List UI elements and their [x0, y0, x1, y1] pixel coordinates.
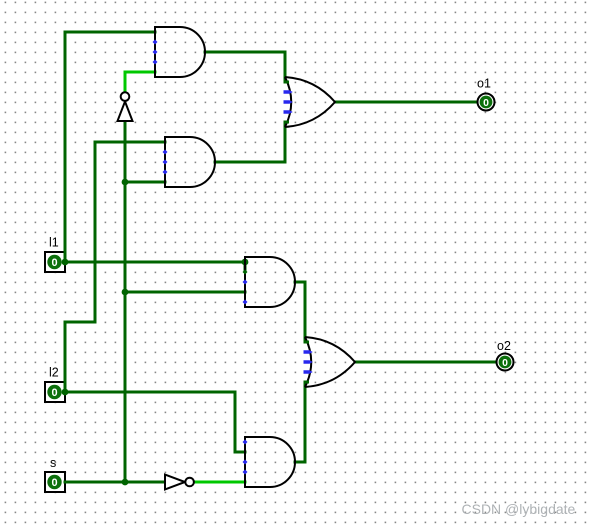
wire l1 to AND1 top input	[65, 32, 155, 262]
NOT gate N1 (pointing up)	[118, 92, 133, 121]
wire OR2 output to pin o2	[355, 361, 496, 364]
input pin s	[45, 456, 65, 492]
svg-text:0: 0	[502, 357, 508, 369]
AND gate A3	[243, 257, 296, 307]
svg-text:0: 0	[483, 97, 489, 109]
wire s to AND2 input 5	[125, 181, 165, 184]
svg-text:o2: o2	[497, 339, 511, 353]
input pin l1	[45, 236, 65, 273]
wire NOT2 output to AND4 input 5 (high)	[196, 481, 245, 484]
svg-text:CSDN @lybigdate: CSDN @lybigdate	[462, 501, 576, 517]
wire l2 to AND4 input 2	[65, 392, 245, 452]
AND gate A1	[153, 27, 206, 77]
input pin l2	[45, 366, 65, 403]
node junction AND3 input 1	[242, 259, 249, 266]
wire AND4 output to OR2 input 5	[295, 382, 305, 462]
svg-text:0: 0	[51, 257, 57, 269]
NOT gate N2 (pointing right)	[165, 475, 194, 490]
wire AND1 output to OR1 input 1	[205, 52, 285, 82]
OR gate O2	[304, 337, 356, 387]
node junction s at NOT2	[122, 479, 129, 486]
svg-text:l2: l2	[49, 366, 59, 380]
node junction s to AND2	[122, 179, 129, 186]
output pin o2	[497, 339, 514, 371]
svg-text:l1: l1	[49, 236, 59, 250]
wire NOT1 output to AND1 input 5 (high)	[125, 72, 155, 92]
wire AND3 output to OR2 input 1	[295, 282, 305, 342]
wire AND2 output to OR1 input 5	[215, 122, 285, 162]
node junction l2	[62, 389, 69, 396]
svg-text:0: 0	[51, 387, 57, 399]
wire l2 riser to AND2 input 1	[65, 142, 165, 392]
AND gate A4	[243, 437, 296, 487]
node junction s to AND3	[122, 289, 129, 296]
wire s to AND3 input 4	[125, 291, 245, 294]
OR gate O1	[284, 77, 336, 127]
svg-text:s: s	[50, 456, 56, 470]
wire s to NOT2 input	[65, 481, 165, 484]
wire l1 to AND3 input 1	[65, 261, 245, 264]
wire stub AND3 input 2	[244, 262, 247, 271]
output pin o1	[477, 77, 495, 111]
AND gate A2	[163, 137, 216, 187]
svg-text:0: 0	[51, 477, 57, 489]
wire s riser to NOT1 input	[124, 122, 127, 482]
wire OR1 output to pin o1	[335, 101, 476, 104]
node junction l1	[62, 259, 69, 266]
svg-text:o1: o1	[477, 77, 491, 91]
